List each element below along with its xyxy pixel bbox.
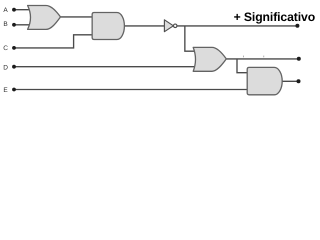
svg-text:D: D (3, 64, 8, 71)
wire OR1 output to AND1 (60, 16, 93, 18)
wire AND1 output to NOT (124, 25, 165, 27)
svg-text:B: B (3, 21, 7, 28)
node D input dot (12, 65, 16, 69)
inverter NOT bubble (173, 24, 177, 28)
node E input dot (12, 88, 16, 92)
wire AND2 output to bottom-right output (281, 80, 298, 82)
svg-text:C: C (3, 45, 8, 52)
node B input dot (12, 23, 16, 27)
svg-text:+ Significativo: + Significativo (234, 10, 315, 24)
or-gate OR1 (inputs A,B) (28, 6, 61, 30)
wire OR2 output to middle-right output (226, 58, 299, 60)
svg-text:A: A (3, 7, 8, 14)
wire C to AND1 (jog up) (14, 35, 93, 48)
wire branch from NOT output down to OR2 upper input (185, 26, 197, 51)
wire branch from OR2 output down to AND2 upper input (237, 59, 250, 73)
stray tick mark 1 above OR2 output wire (242, 56, 245, 58)
output dot bottom (AND2 out) (297, 79, 301, 83)
wire E to AND2 (14, 89, 248, 91)
output dot middle (OR2 out) (297, 57, 301, 61)
wire B to OR1 (14, 24, 31, 26)
wire NOT output to top-right output (177, 25, 298, 27)
and-gate AND2 (OR2 branch, E) (247, 67, 282, 94)
or-gate OR2 (NOT branch, D) (193, 47, 226, 71)
output dot top (+ Significativo net) (295, 24, 299, 28)
wire A to OR1 (14, 9, 31, 11)
inverter NOT (triangle) (164, 20, 173, 32)
svg-text:E: E (3, 87, 8, 94)
stray tick mark 2 above OR2 output wire (262, 56, 265, 58)
node C input dot (12, 46, 16, 50)
node A input dot (12, 8, 16, 12)
and-gate AND1 (OR1 out, C) (92, 13, 124, 40)
wire D to OR2 (14, 66, 197, 68)
